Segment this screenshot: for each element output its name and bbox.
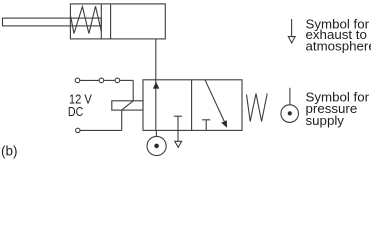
svg-text:supply: supply (306, 113, 345, 128)
svg-text:(b): (b) (1, 143, 18, 158)
svg-text:DC: DC (68, 104, 83, 119)
svg-text:atmosphere: atmosphere (306, 38, 371, 53)
